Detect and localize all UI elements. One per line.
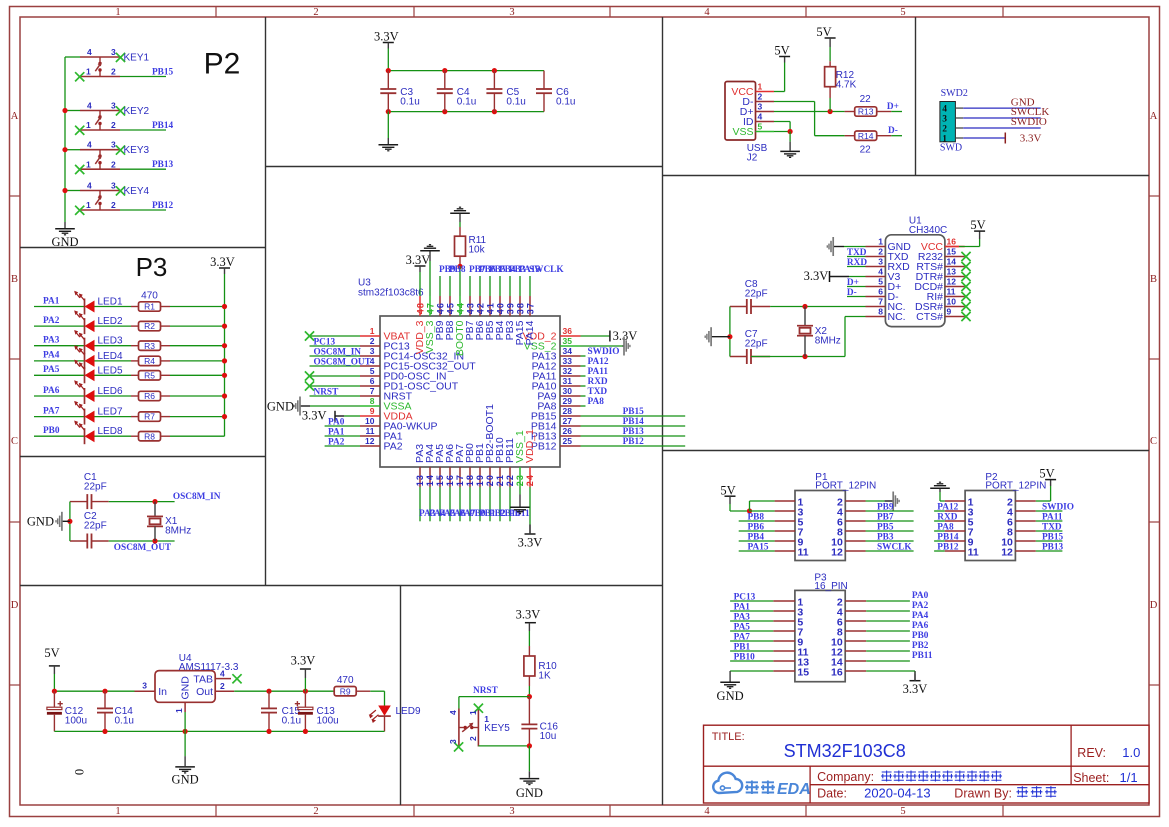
svg-text:PA12: PA12 <box>588 357 609 367</box>
wire net PA7 (U3 bottom) <box>459 487 476 521</box>
wire net PB14 <box>120 121 174 131</box>
stray mark <box>72 769 86 775</box>
power 3.3V (decoupling) <box>374 29 399 70</box>
U3 pin 41 PB5 <box>484 296 496 340</box>
svg-text:22pF: 22pF <box>84 481 107 492</box>
svg-text:PA6: PA6 <box>43 386 60 396</box>
ground GND (regulator) <box>172 712 199 787</box>
svg-text:3.3V: 3.3V <box>518 536 543 550</box>
J2 pin 3 D+ <box>740 102 774 118</box>
wire net GND (SWD) <box>963 96 1040 108</box>
svg-text:35: 35 <box>563 336 573 346</box>
svg-text:PA1: PA1 <box>328 427 345 437</box>
capacitor C2 <box>70 511 109 549</box>
U3 pin 24 VDD_1 <box>524 429 536 487</box>
svg-text:D+: D+ <box>887 102 899 112</box>
power 3.3V (U3 VDDA) <box>302 409 360 423</box>
svg-text:3: 3 <box>448 739 458 744</box>
svg-text:5: 5 <box>370 366 375 376</box>
svg-text:7: 7 <box>370 386 375 396</box>
switch KEY1 <box>75 47 149 81</box>
svg-text:12: 12 <box>947 277 957 287</box>
U1 pin 14 RTS# <box>916 257 970 273</box>
svg-text:LED9: LED9 <box>396 706 421 717</box>
svg-text:2: 2 <box>111 159 116 169</box>
svg-text:OSC8M_OUT: OSC8M_OUT <box>314 357 372 367</box>
resistor R14 22 <box>845 131 892 156</box>
svg-text:1: 1 <box>86 159 91 169</box>
U3 pin 29 PA8 <box>537 396 580 412</box>
svg-text:Sheet:: Sheet: <box>1073 771 1109 785</box>
SWD2 pin 2 <box>942 124 963 134</box>
svg-text:stm32f103c8t6: stm32f103c8t6 <box>358 288 424 299</box>
svg-text:PA12: PA12 <box>937 503 958 513</box>
ground GND (USB) <box>774 129 800 158</box>
title block <box>704 725 1150 803</box>
U3 pin 44 BOOT0 <box>454 296 466 356</box>
svg-text:2: 2 <box>878 247 883 257</box>
svg-text:2: 2 <box>111 120 116 130</box>
svg-text:PA7: PA7 <box>43 406 60 416</box>
U3 pin 6 PD1-OSC_OUT <box>360 376 459 392</box>
wire net PA4 <box>34 351 85 361</box>
svg-text:1: 1 <box>468 710 478 715</box>
power 3.3V (U3 VDD_2) <box>581 329 638 343</box>
wire net PA3 (U3 bottom) <box>419 487 436 521</box>
label P3 <box>136 252 168 282</box>
wire net PA5 (P3) <box>730 623 773 633</box>
svg-text:3: 3 <box>878 257 883 267</box>
svg-text:16: 16 <box>445 474 455 486</box>
U3 pin 35 VSS_2 <box>524 336 581 352</box>
ground (P2 pin1) <box>930 482 950 501</box>
svg-text:470: 470 <box>337 675 354 686</box>
svg-text:PB11: PB11 <box>912 651 933 661</box>
wire J2 D+ to R13 <box>774 109 845 114</box>
capacitor C5 <box>486 71 525 112</box>
wire C7 to X2 <box>751 354 845 359</box>
ground GND (keys) <box>51 222 78 249</box>
svg-text:A: A <box>1150 111 1158 122</box>
svg-text:47: 47 <box>426 302 436 314</box>
svg-text:GND: GND <box>267 399 294 413</box>
svg-text:3: 3 <box>370 346 375 356</box>
svg-text:8: 8 <box>370 396 375 406</box>
switch KEY4 <box>75 181 149 215</box>
svg-text:22pF: 22pF <box>745 339 768 350</box>
svg-text:10u: 10u <box>540 731 557 742</box>
svg-text:R2: R2 <box>144 321 155 331</box>
wire net PA2 (P3) <box>866 601 928 611</box>
U3 pin 33 PA12 <box>532 356 581 372</box>
U3 pin 27 PB14 <box>531 416 581 432</box>
wire J2 ID to VSS <box>774 122 790 132</box>
wire net PB5 (U3 top) <box>489 265 506 296</box>
crystal X1 8MHz <box>147 502 191 541</box>
U1 pin 3 RXD <box>866 257 911 273</box>
resistor R10 1K <box>524 646 557 686</box>
svg-text:5V: 5V <box>720 483 735 497</box>
wire net PB5 (P1) <box>866 523 914 533</box>
svg-text:GND: GND <box>172 773 199 787</box>
svg-text:1: 1 <box>86 200 91 210</box>
svg-text:0.1u: 0.1u <box>400 96 419 107</box>
ground GND (P3) <box>717 671 774 703</box>
resistor R6 <box>131 391 170 401</box>
power 3.3V (U1 V3) <box>804 269 866 283</box>
crystal X2 8MHz <box>797 307 841 357</box>
svg-text:1/1: 1/1 <box>1120 770 1138 785</box>
connector P1 PORT_12PIN <box>775 472 877 560</box>
svg-text:30: 30 <box>563 386 573 396</box>
wire net PA5 <box>34 365 85 375</box>
power 5V (USB) <box>774 43 790 91</box>
svg-text:PB7: PB7 <box>877 513 894 523</box>
wire net NRST (U3) <box>310 387 361 397</box>
svg-text:PA8: PA8 <box>588 397 605 407</box>
wire net PB6 (U3 top) <box>479 265 496 296</box>
wire 5V rail <box>52 689 135 694</box>
U3 pin 42 PB6 <box>474 296 486 340</box>
svg-text:2020-04-13: 2020-04-13 <box>864 786 931 801</box>
resistor R3 <box>131 341 170 351</box>
svg-text:P3: P3 <box>136 252 168 282</box>
wire net D- <box>888 126 902 136</box>
svg-text:PB4: PB4 <box>748 533 765 543</box>
wire net PA4 (P3) <box>866 611 928 621</box>
svg-text:PC13: PC13 <box>314 337 336 347</box>
wire net PA15 (P1) <box>739 543 775 553</box>
SWD2 pin 3 <box>942 114 963 124</box>
svg-text:5: 5 <box>758 122 763 132</box>
U1 pin 4 V3 <box>866 267 901 283</box>
U3 pin 7 NRST <box>360 386 413 402</box>
wire net RXD (P2) <box>934 513 958 523</box>
svg-text:40: 40 <box>496 302 506 314</box>
ground (U3 VSS_2) <box>581 337 630 356</box>
svg-text:12: 12 <box>831 547 843 559</box>
svg-text:46: 46 <box>436 302 446 314</box>
U1 pin 7 NC. <box>866 297 906 313</box>
wire net RXD (U3) <box>581 377 608 387</box>
wire net OSC8M_OUT (U3) <box>310 357 372 367</box>
svg-text:11: 11 <box>968 547 979 559</box>
svg-text:4: 4 <box>448 710 458 715</box>
svg-text:PA7: PA7 <box>734 633 751 643</box>
svg-text:4: 4 <box>704 7 710 18</box>
svg-text:6: 6 <box>878 287 883 297</box>
svg-text:PB12: PB12 <box>937 543 959 553</box>
svg-text:PB15: PB15 <box>1042 533 1064 543</box>
wire net PB0 <box>34 426 85 436</box>
svg-text:KEY1: KEY1 <box>124 52 150 63</box>
svg-text:PA0: PA0 <box>328 417 345 427</box>
svg-text:14: 14 <box>425 474 435 486</box>
svg-text:CH340C: CH340C <box>909 225 947 236</box>
svg-text:0.1u: 0.1u <box>506 96 525 107</box>
svg-text:EDA: EDA <box>777 781 811 798</box>
wire net PB11 (U3 bottom) <box>509 487 530 521</box>
wire net PA4 (U3 bottom) <box>429 487 446 521</box>
U3 pin 39 PB3 <box>504 296 516 340</box>
svg-text:24: 24 <box>525 474 535 486</box>
wire net PA7 <box>34 406 85 416</box>
svg-text:100u: 100u <box>317 716 339 727</box>
svg-text:PA6: PA6 <box>912 621 929 631</box>
svg-text:STM32F103C8: STM32F103C8 <box>784 741 906 761</box>
svg-text:PB14: PB14 <box>623 417 645 427</box>
wire net PB3 (U3 top) <box>509 265 526 296</box>
resistor R7 <box>131 412 170 422</box>
svg-text:1: 1 <box>115 7 120 18</box>
svg-text:C: C <box>1150 436 1157 447</box>
wire 3.3V rail (regulator out) <box>234 689 334 694</box>
connector P2 PORT_12PIN <box>945 472 1047 560</box>
wire R2 to rail <box>170 324 227 329</box>
svg-text:3: 3 <box>509 806 514 817</box>
wire U3 pin6 no-connect <box>305 381 360 390</box>
power 3.3V (U3 VDD_3) <box>406 253 431 296</box>
LED LED3 <box>74 330 131 354</box>
svg-text:PA11: PA11 <box>588 367 609 377</box>
svg-text:45: 45 <box>446 302 456 314</box>
svg-text:4: 4 <box>942 105 947 115</box>
U3 pin 4 PC15-OSC32_OUT <box>360 356 476 372</box>
wire R6 to rail <box>170 393 227 398</box>
svg-text:3.3V: 3.3V <box>516 608 541 622</box>
svg-text:15: 15 <box>435 474 445 486</box>
U1 pin 6 D- <box>866 287 900 303</box>
svg-text:6: 6 <box>370 376 375 386</box>
U3 pin 11 PA1 <box>360 426 403 442</box>
svg-text:1: 1 <box>115 806 120 817</box>
svg-text:SWDIO: SWDIO <box>1042 503 1074 513</box>
wire U3 pin1 no-connect <box>305 331 360 340</box>
svg-text:2: 2 <box>370 336 375 346</box>
wire net D+ (U1) <box>847 278 866 288</box>
svg-text:100u: 100u <box>65 716 87 727</box>
U3 pin 38 PA15 <box>514 296 526 345</box>
svg-text:Out: Out <box>196 686 213 698</box>
wire J2 D- to R14 <box>774 102 845 136</box>
svg-text:2: 2 <box>313 806 318 817</box>
svg-text:3: 3 <box>111 181 116 191</box>
svg-text:4: 4 <box>87 140 92 150</box>
svg-text:PA2: PA2 <box>43 316 60 326</box>
connector J2 USB body <box>725 82 768 164</box>
svg-text:GND: GND <box>179 676 191 700</box>
J2 pin 1 VCC <box>731 82 774 98</box>
svg-text:TAB: TAB <box>193 674 213 686</box>
svg-text:32: 32 <box>563 366 573 376</box>
svg-text:RXD: RXD <box>588 377 608 387</box>
svg-text:4: 4 <box>758 112 763 122</box>
wire net PB12 (U3) <box>581 437 686 447</box>
capacitor C1 <box>70 472 109 509</box>
svg-text:Drawn By:: Drawn By: <box>954 787 1012 801</box>
U3 pin 14 PA4 <box>424 444 436 487</box>
svg-text:8MHz: 8MHz <box>815 336 841 347</box>
svg-text:PB0: PB0 <box>43 426 60 436</box>
U3 pin 16 PA6 <box>444 444 456 487</box>
svg-text:KEY3: KEY3 <box>124 145 150 156</box>
svg-text:5V: 5V <box>774 43 789 57</box>
svg-text:37: 37 <box>526 302 536 314</box>
U3 pin 15 PA5 <box>434 444 446 487</box>
svg-text:A: A <box>11 111 19 122</box>
svg-text:1: 1 <box>174 708 184 713</box>
wire net PB12 <box>120 201 174 211</box>
svg-text:41: 41 <box>486 302 496 314</box>
svg-text:44: 44 <box>456 302 466 314</box>
wire U3 pin5 no-connect <box>305 371 360 380</box>
svg-text:PORT_12PIN: PORT_12PIN <box>985 481 1046 492</box>
wire net PB0 (U3 bottom) <box>469 487 486 521</box>
svg-text:22: 22 <box>505 474 515 486</box>
U1 pin 8 NC. <box>866 307 906 323</box>
LED LED5 <box>74 360 131 384</box>
svg-text:22: 22 <box>860 94 872 105</box>
svg-text:D-: D- <box>888 126 898 136</box>
wire net PA3 <box>34 336 85 346</box>
svg-text:PA2: PA2 <box>912 601 929 611</box>
svg-text:4.7K: 4.7K <box>836 80 857 91</box>
power 5V (regulator input) <box>44 646 60 691</box>
ground (U1 crystal) <box>705 327 730 346</box>
resistor R2 <box>131 321 170 331</box>
SWD2 pin 1 <box>942 134 963 144</box>
wire net TXD (U3) <box>581 387 608 397</box>
J2 pin 5 VSS <box>732 122 774 138</box>
svg-text:PB15: PB15 <box>152 68 174 78</box>
svg-text:16_PIN: 16_PIN <box>814 581 847 592</box>
power 5V (U1 VCC) <box>945 218 986 247</box>
U3 pin 22 PB11 <box>504 438 516 487</box>
svg-text:8: 8 <box>878 307 883 317</box>
svg-text:13: 13 <box>947 267 957 277</box>
svg-text:4: 4 <box>878 267 883 277</box>
svg-text:14: 14 <box>947 257 957 267</box>
wire net PB14 (U3) <box>581 417 686 427</box>
svg-text:3.3V: 3.3V <box>302 409 327 423</box>
LED LED6 <box>74 380 131 404</box>
wire net PA7 (P3) <box>730 633 773 643</box>
ground GND (crystal) <box>27 512 70 531</box>
svg-text:25: 25 <box>563 436 573 446</box>
svg-text:12: 12 <box>1001 547 1013 559</box>
LED LED8 <box>74 421 131 445</box>
svg-text:C: C <box>11 436 18 447</box>
resistor R8 <box>131 431 170 441</box>
U3 pin 25 PB12 <box>531 436 581 452</box>
svg-text:1: 1 <box>942 134 947 144</box>
svg-text:4: 4 <box>704 806 710 817</box>
svg-text:RXD: RXD <box>847 258 867 268</box>
svg-text:NC.: NC. <box>888 311 906 323</box>
svg-text:13: 13 <box>415 474 425 486</box>
wire net PB15 <box>120 68 174 78</box>
svg-text:R6: R6 <box>144 391 155 401</box>
wire R5 to rail <box>170 373 227 378</box>
svg-text:PA1: PA1 <box>43 296 60 306</box>
wire net PC13 (P3) <box>730 593 773 603</box>
U3 pin 37 PA14 <box>524 296 536 345</box>
wire decoupling top rail <box>386 68 544 73</box>
svg-text:2: 2 <box>758 92 763 102</box>
svg-text:3: 3 <box>111 140 116 150</box>
wire KEY3 pin4 <box>62 147 80 152</box>
svg-text:PA2: PA2 <box>384 440 403 452</box>
U3 pin 26 PB13 <box>531 426 581 442</box>
power 3.3V (P3 pin16) <box>866 671 927 696</box>
wire net PA8 (U3) <box>581 397 605 407</box>
svg-text:PB1: PB1 <box>734 643 751 653</box>
wire decoupling bottom rail <box>386 109 544 114</box>
svg-text:48: 48 <box>416 302 426 314</box>
svg-text:PA2: PA2 <box>328 437 345 447</box>
svg-text:VDD_1: VDD_1 <box>524 429 536 463</box>
U1 pin 10 DSR# <box>915 297 971 313</box>
wire net D- (U1) <box>847 288 866 298</box>
svg-text:PA4: PA4 <box>43 351 60 361</box>
drawn-by name text <box>1017 786 1057 797</box>
wire GND trunk <box>64 57 66 222</box>
svg-text:4: 4 <box>87 47 92 57</box>
U1 pin 2 TXD <box>866 247 909 263</box>
wire net SWCLK (P1) <box>866 543 914 553</box>
wire net D+ <box>887 102 902 112</box>
U1 pin 15 R232 <box>918 247 971 263</box>
svg-text:PB5: PB5 <box>877 523 894 533</box>
svg-text:PA3: PA3 <box>734 613 751 623</box>
ground (U1 GND) <box>827 237 865 256</box>
svg-text:16: 16 <box>947 237 957 247</box>
U1 pin 9 CTS# <box>916 307 970 323</box>
svg-text:20: 20 <box>485 474 495 486</box>
svg-text:11: 11 <box>798 547 809 559</box>
svg-text:3: 3 <box>111 47 116 57</box>
wire net PB13 (U3) <box>581 427 686 437</box>
svg-text:P2: P2 <box>204 48 241 81</box>
U3 pin 31 PA10 <box>532 376 581 392</box>
U3 pin 46 PB9 <box>434 296 446 340</box>
wire net PA8 (P2) <box>934 523 954 533</box>
svg-text:2: 2 <box>468 736 478 741</box>
svg-text:38: 38 <box>516 302 526 314</box>
U3 pin 21 PB10 <box>494 437 506 487</box>
wire net PB7 (P1) <box>866 513 914 523</box>
svg-text:0: 0 <box>72 769 86 775</box>
svg-text:31: 31 <box>563 376 573 386</box>
svg-text:OSC8M_OUT: OSC8M_OUT <box>114 543 172 553</box>
LED LED1 <box>74 291 131 315</box>
wire net PA12 (P2) <box>934 503 959 513</box>
svg-text:GND: GND <box>51 235 78 249</box>
wire KEY4 pin4 <box>62 188 80 193</box>
svg-text:D: D <box>1150 600 1158 611</box>
U1 pin 1 GND <box>866 237 912 253</box>
resistor R1 <box>131 291 170 312</box>
svg-text:PA4: PA4 <box>912 611 929 621</box>
resistor R4 <box>131 356 170 366</box>
svg-text:1K: 1K <box>538 671 551 682</box>
svg-text:VSS: VSS <box>732 126 753 138</box>
LED LED4 <box>74 345 131 369</box>
U3 pin 34 PA13 <box>532 346 581 362</box>
svg-text:470: 470 <box>141 291 158 302</box>
svg-text:KEY2: KEY2 <box>124 106 150 117</box>
wire C1-C2 left leg <box>67 502 72 541</box>
